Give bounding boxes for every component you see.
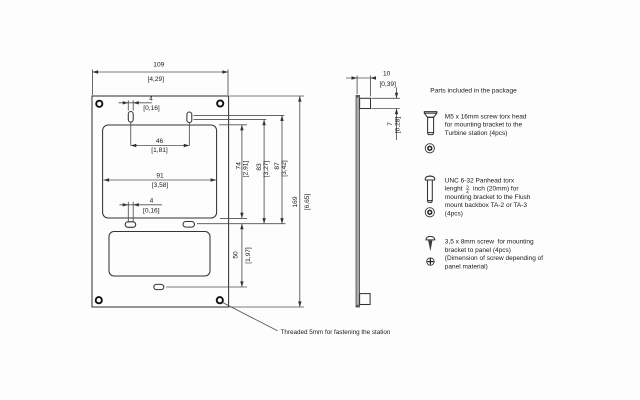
dimension 7 [0,28] tab height [372,88,402,141]
svg-text:[4,29]: [4,29] [148,76,165,83]
item 1 text [445,113,527,137]
dimension 10 [0,39] depth [346,71,396,97]
dimension 169 [6,65] overall height [230,96,311,307]
svg-text:87: 87 [274,162,281,170]
svg-text:mounting bracket to the Flush: mounting bracket to the Flush [445,194,531,201]
svg-text:4: 4 [149,96,153,103]
svg-text:mount backbox TA-2 or TA-3: mount backbox TA-2 or TA-3 [445,202,528,209]
svg-text:3,5 x 8mm screw for mounting: 3,5 x 8mm screw for mounting [445,239,534,246]
svg-text:M5 x 16mm screw torx head: M5 x 16mm screw torx head [445,113,527,120]
screw M5 flat head icon [424,112,437,135]
svg-text:74: 74 [235,162,242,170]
leader line threaded note [223,303,391,337]
screw 3,5x8 tapping icon [426,236,435,251]
svg-text:10: 10 [383,71,391,78]
svg-text:Turbine station (4pcs): Turbine station (4pcs) [445,130,508,137]
svg-text:91: 91 [156,172,164,179]
svg-text:50: 50 [233,251,240,259]
svg-text:[0,28]: [0,28] [394,117,401,134]
capsule below lower cutout [154,284,164,289]
svg-text:[0,16]: [0,16] [143,208,160,215]
foot capsule left (below upper cutout) [125,222,136,228]
svg-text:[3,42]: [3,42] [281,160,288,177]
dimension 83 [3,27] vertical [194,120,271,224]
svg-text:Parts included in the package: Parts included in the package [430,87,517,94]
parts list title [430,87,517,94]
svg-text:inch (20mm) for: inch (20mm) for [473,186,519,193]
svg-text:(4pcs): (4pcs) [445,211,463,218]
svg-text:(Dimension of screw depending: (Dimension of screw depending of [445,255,543,262]
lower cutout [109,232,210,277]
svg-text:for mounting bracket to the: for mounting bracket to the [445,122,523,129]
mounting plate outline (front view) [92,96,229,307]
corner hole top-right [217,100,223,106]
svg-text:[6,65]: [6,65] [304,194,311,211]
dimension 50 [1,97] vertical [166,224,252,287]
corner hole top-left [96,101,102,107]
foot capsule right (below upper cutout) [183,222,195,228]
svg-text:bracket to panel (4pcs): bracket to panel (4pcs) [445,247,511,254]
washer 1 [425,144,434,153]
item 3 text [445,239,543,271]
svg-text:[1,97]: [1,97] [245,247,252,264]
svg-text:UNC 6-32 Panhead torx: UNC 6-32 Panhead torx [445,177,515,184]
svg-text:panel material): panel material) [445,264,488,271]
svg-text:169: 169 [292,196,299,207]
corner hole bottom-right [217,297,223,303]
svg-text:[3,27]: [3,27] [263,161,270,178]
top slot right [187,112,192,123]
side view top tab [360,98,371,108]
svg-text:4: 4 [150,198,154,205]
svg-text:[2,91]: [2,91] [242,161,249,178]
dimension 91 [3,58] cutout width [104,172,217,189]
dimension 109 [4,29] top width [93,62,229,96]
washer 2 [425,208,434,217]
top slot left [128,112,133,123]
dimension 4 [0,16] lower slot width [120,198,163,215]
svg-text:[1,81]: [1,81] [151,147,168,154]
svg-text:[0,39]: [0,39] [379,81,396,88]
svg-text:[0,16]: [0,16] [143,105,160,112]
dimension 87 [3,42] vertical [194,115,289,223]
corner hole bottom-left [96,297,102,303]
item 2 text [445,177,531,217]
phillips head view [427,258,434,265]
screw UNC pan head icon [425,175,434,202]
keyhole neck lines below upper cutout [128,202,133,223]
svg-text:83: 83 [256,163,263,171]
svg-text:Threaded 5mm for fastening the: Threaded 5mm for fastening the station [281,329,391,336]
svg-text:109: 109 [153,62,164,69]
svg-text:lenght: lenght [445,186,463,193]
svg-text:7: 7 [387,122,394,126]
side view end dots [356,95,359,307]
dimension 4 [0,16] top slot width [119,96,160,113]
svg-text:[3,58]: [3,58] [152,182,169,189]
side view plate bar [356,96,360,308]
svg-text:46: 46 [156,138,164,145]
side view bottom tab [360,294,371,305]
dimension 46 [1,81] slot spacing [131,123,190,155]
dimension 74 [2,91] vertical [219,125,249,219]
upper cutout [103,125,217,218]
